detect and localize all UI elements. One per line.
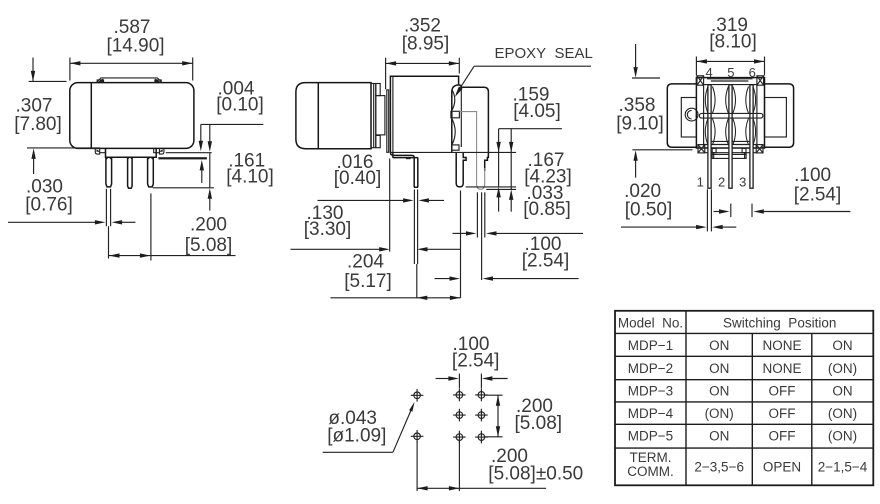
svg-text:[0.40]: [0.40] bbox=[334, 168, 382, 189]
svg-text:EPOXY SEAL: EPOXY SEAL bbox=[495, 45, 593, 62]
svg-text:5: 5 bbox=[727, 65, 734, 80]
svg-text:.100: .100 bbox=[794, 165, 831, 186]
svg-text:OPEN: OPEN bbox=[763, 460, 801, 475]
svg-text:MDP−1: MDP−1 bbox=[628, 338, 673, 353]
svg-text:Model No.: Model No. bbox=[618, 316, 683, 331]
svg-text:[2.54]: [2.54] bbox=[522, 251, 570, 272]
svg-text:.200: .200 bbox=[190, 215, 227, 236]
svg-text:.204: .204 bbox=[347, 252, 384, 273]
svg-text:2−3,5−6: 2−3,5−6 bbox=[694, 460, 744, 475]
svg-text:(ON): (ON) bbox=[705, 406, 734, 421]
svg-text:[2.54]: [2.54] bbox=[794, 185, 842, 206]
svg-text:(ON): (ON) bbox=[828, 361, 857, 376]
svg-text:[5.17]: [5.17] bbox=[344, 271, 392, 292]
svg-text:[ø1.09]: [ø1.09] bbox=[327, 426, 386, 447]
svg-text:[2.54]: [2.54] bbox=[452, 351, 500, 372]
svg-text:3: 3 bbox=[739, 175, 746, 190]
svg-text:[5.08]: [5.08] bbox=[515, 413, 563, 434]
svg-text:NONE: NONE bbox=[762, 361, 801, 376]
svg-text:[0.76]: [0.76] bbox=[25, 195, 73, 216]
svg-text:(ON): (ON) bbox=[828, 428, 857, 443]
svg-text:ON: ON bbox=[709, 338, 729, 353]
svg-text:[14.90]: [14.90] bbox=[106, 36, 164, 57]
svg-text:1: 1 bbox=[697, 175, 704, 190]
svg-text:[7.80]: [7.80] bbox=[14, 114, 62, 135]
svg-text:OFF: OFF bbox=[769, 384, 796, 399]
svg-text:MDP−3: MDP−3 bbox=[628, 384, 673, 399]
svg-text:[8.95]: [8.95] bbox=[402, 34, 450, 55]
svg-text:[4.05]: [4.05] bbox=[513, 101, 561, 122]
svg-text:[0.50]: [0.50] bbox=[625, 200, 673, 221]
svg-text:ON: ON bbox=[709, 428, 729, 443]
svg-text:OFF: OFF bbox=[769, 428, 796, 443]
svg-text:[0.85]: [0.85] bbox=[523, 199, 571, 220]
svg-text:ON: ON bbox=[832, 338, 852, 353]
svg-text:ON: ON bbox=[709, 384, 729, 399]
svg-text:[5.08]: [5.08] bbox=[185, 235, 233, 256]
svg-text:COMM.: COMM. bbox=[627, 464, 674, 479]
svg-text:MDP−2: MDP−2 bbox=[628, 361, 673, 376]
svg-text:MDP−5: MDP−5 bbox=[628, 428, 673, 443]
svg-text:MDP−4: MDP−4 bbox=[628, 406, 674, 421]
svg-text:[4.10]: [4.10] bbox=[226, 167, 274, 188]
svg-text:[5.08]±0.50: [5.08]±0.50 bbox=[488, 464, 583, 485]
svg-text:[0.10]: [0.10] bbox=[216, 95, 264, 116]
svg-text:(ON): (ON) bbox=[828, 406, 857, 421]
svg-text:4: 4 bbox=[705, 65, 712, 80]
svg-text:6: 6 bbox=[749, 65, 756, 80]
svg-text:[8.10]: [8.10] bbox=[709, 32, 757, 53]
svg-text:[3.30]: [3.30] bbox=[304, 219, 352, 240]
svg-text:ON: ON bbox=[709, 361, 729, 376]
svg-text:Switching Position: Switching Position bbox=[723, 316, 836, 331]
svg-text:TERM.: TERM. bbox=[630, 450, 672, 465]
svg-text:[9.10]: [9.10] bbox=[616, 114, 664, 135]
svg-text:OFF: OFF bbox=[769, 406, 796, 421]
svg-text:2: 2 bbox=[718, 175, 725, 190]
svg-text:ON: ON bbox=[832, 384, 852, 399]
svg-text:2−1,5−4: 2−1,5−4 bbox=[818, 460, 868, 475]
svg-text:NONE: NONE bbox=[762, 338, 801, 353]
